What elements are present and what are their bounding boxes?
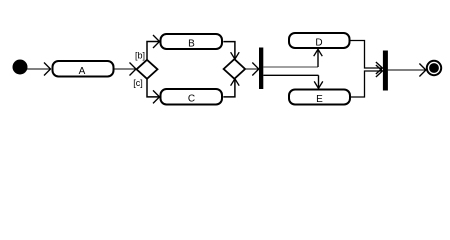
svg-text:[c]: [c] [133,78,143,88]
svg-text:C: C [188,94,195,105]
svg-text:D: D [315,37,322,48]
svg-text:[b]: [b] [135,51,145,61]
svg-text:A: A [79,66,86,77]
svg-text:E: E [316,94,323,105]
svg-text:B: B [188,38,195,49]
